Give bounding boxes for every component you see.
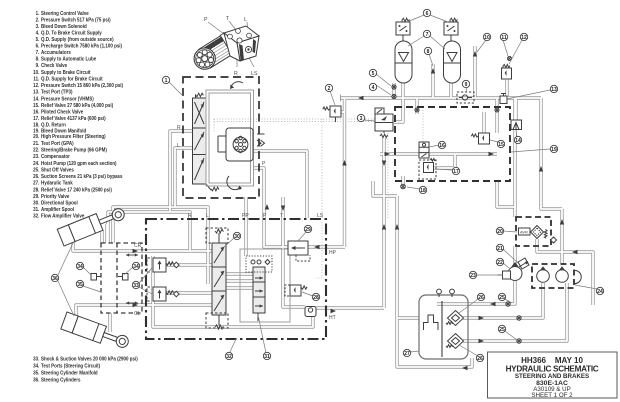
bleed down solenoid 3: [375, 108, 393, 138]
svg-text:Shock & Suction Valves 20 000: Shock & Suction Valves 20 000 kPa (2900 …: [41, 356, 138, 363]
suction screen 26 top: [446, 311, 464, 326]
svg-text:7: 7: [426, 32, 429, 38]
svg-text:34: 34: [77, 264, 83, 270]
svg-text:9.: 9.: [36, 63, 40, 70]
svg-text:L: L: [244, 17, 247, 23]
svg-text:Steering Cylinder Manifold: Steering Cylinder Manifold: [41, 370, 98, 377]
accumulator 7 right: [444, 35, 461, 83]
svg-text:22: 22: [497, 260, 503, 266]
svg-text:26: 26: [477, 356, 483, 362]
svg-text:T: T: [280, 213, 283, 219]
svg-text:21: 21: [497, 246, 503, 252]
svg-text:Hydarulic Tank: Hydarulic Tank: [41, 180, 73, 187]
svg-text:35.: 35.: [33, 370, 40, 377]
svg-text:L: L: [206, 213, 209, 219]
relief valve 2: [323, 106, 341, 122]
arrow tank loop left: [462, 366, 468, 370]
svg-text:LS: LS: [317, 213, 324, 219]
fitting screen line top: [517, 316, 521, 320]
amplifier spool 31 body: [246, 256, 272, 321]
svg-text:34.: 34.: [33, 363, 40, 370]
svg-text:SHEET 1 OF 2: SHEET 1 OF 2: [531, 392, 573, 399]
pump body barrel: [199, 33, 236, 68]
filter outlet fitting: [551, 237, 557, 243]
relief valve 28: [285, 285, 307, 296]
fitting pump suction: [506, 302, 510, 306]
test port 13: [500, 94, 507, 104]
shock valve 33 lower: [147, 287, 179, 301]
steering valve spool stack: [193, 93, 219, 191]
svg-text:High Pressure Filter (Steering: High Pressure Filter (Steering): [41, 134, 106, 141]
svg-text:Check Valve: Check Valve: [41, 63, 67, 70]
svg-text:Compensator: Compensator: [41, 154, 70, 161]
arrow suction left: [490, 302, 496, 306]
svg-text:P: P: [204, 17, 208, 23]
steering brake pump 22: [498, 262, 523, 281]
svg-text:Test Port (TP3): Test Port (TP3): [41, 89, 73, 96]
svg-text:CL: CL: [134, 311, 141, 317]
port fittings: QD supply 4 and 5: [392, 85, 396, 89]
steering valve subplate: [206, 90, 254, 186]
svg-text:16: 16: [439, 143, 445, 149]
svg-text:9: 9: [465, 82, 468, 88]
svg-text:3: 3: [360, 116, 363, 122]
bleed down manifold boundary box 19: [395, 107, 510, 181]
flow amplifier valve boundary box 32: [146, 219, 326, 339]
svg-text:R: R: [234, 71, 238, 77]
svg-text:24: 24: [597, 289, 603, 295]
svg-text:6: 6: [426, 11, 429, 17]
hose lines outer rails: [73, 46, 593, 367]
svg-text:CR: CR: [134, 243, 142, 249]
svg-text:14: 14: [515, 138, 521, 144]
svg-text:36.: 36.: [33, 377, 40, 384]
top steering cylinder 36: [57, 204, 127, 246]
svg-text:Test Ports (Steering Circuit): Test Ports (Steering Circuit): [41, 363, 100, 370]
svg-text:L: L: [177, 143, 180, 149]
svg-text:20: 20: [497, 229, 503, 235]
svg-text:Steering Cylinders: Steering Cylinders: [41, 377, 81, 384]
compensator 21: [518, 258, 529, 269]
LS pilot dotted into flow amp: [316, 222, 322, 278]
priority valve 29: [288, 241, 310, 261]
svg-text:15: 15: [498, 142, 504, 148]
arrow solenoid drain down: [382, 161, 386, 167]
relief valve 15: [471, 133, 489, 144]
arrow lube up: [431, 68, 435, 74]
callout leader lines: [58, 15, 597, 356]
port labels: [134, 125, 337, 321]
svg-text:R: R: [188, 213, 192, 219]
check valve 9: [457, 92, 474, 103]
double arrow in manifold upper: [126, 253, 138, 256]
svg-text:31: 31: [264, 354, 270, 360]
pressure switch 6 right: [444, 18, 458, 35]
pressure sensor 14: [511, 120, 522, 130]
arrow drain column up: [382, 224, 386, 230]
high pressure filter boundary box 20: [516, 217, 551, 246]
svg-text:PP: PP: [242, 213, 249, 219]
arrow bus left: [358, 96, 364, 100]
LS pilot dotted vertical at LS port: [321, 119, 323, 218]
bottom steering cylinder 36: [61, 312, 131, 352]
suction screen 26 bottom: [446, 334, 464, 349]
arrow filter riser up: [539, 166, 543, 172]
svg-text:17: 17: [453, 169, 459, 175]
svg-text:32: 32: [226, 354, 232, 360]
steering control valve boundary box 1: [183, 77, 259, 198]
double arrow in manifold lower: [126, 301, 138, 304]
supply bus end cap: [340, 95, 342, 102]
svg-text:HP: HP: [329, 250, 337, 256]
directional spool 30 body: [206, 228, 228, 329]
svg-text:P: P: [263, 213, 267, 219]
arrow bleed bus right b: [489, 152, 495, 156]
arrow T down: [281, 206, 285, 212]
rotation arrow bottom: [227, 176, 242, 190]
svg-text:R: R: [177, 125, 181, 131]
arrow HP riser up: [342, 160, 346, 166]
svg-text:10: 10: [484, 35, 490, 41]
svg-text:12: 12: [521, 35, 527, 41]
svg-text:HT: HT: [329, 315, 336, 321]
svg-text:27: 27: [404, 351, 410, 357]
svg-text:13.: 13.: [33, 89, 40, 96]
hoist pump 24 sections: [537, 266, 582, 283]
svg-text:35: 35: [77, 282, 83, 288]
test port 34 right: [118, 274, 128, 281]
hydraulic tank 27: [419, 289, 468, 359]
svg-text:25: 25: [499, 295, 505, 301]
svg-text:23: 23: [470, 273, 476, 279]
piloted check valve 16: [419, 142, 429, 158]
svg-text:32.: 32.: [33, 213, 40, 220]
arrow hoist feed up: [560, 219, 564, 225]
svg-text:11: 11: [501, 35, 507, 41]
motor port chevrons: [257, 134, 265, 146]
hoist pump boundary box 24: [532, 264, 574, 288]
rotation arrow top: [230, 82, 243, 89]
svg-text:AVR: AVR: [520, 230, 528, 235]
svg-text:18: 18: [420, 188, 426, 194]
svg-text:STEERING AND BRAKES: STEERING AND BRAKES: [515, 373, 589, 380]
accumulator 7 left: [395, 35, 412, 83]
svg-text:P: P: [262, 161, 266, 167]
svg-text:34: 34: [133, 264, 139, 270]
arrow CL trunk: [133, 303, 139, 307]
pump end cap: [194, 48, 215, 69]
valve housing block: [224, 26, 259, 43]
LS pilot dotted line horizontal: [214, 118, 388, 120]
pilot dotted line to piloted check 16: [422, 110, 424, 142]
svg-text:LS: LS: [251, 71, 258, 77]
QD fitting brake circuit 11: [508, 57, 512, 61]
svg-text:1: 1: [165, 78, 168, 84]
arrow hoist pressure left: [572, 250, 578, 254]
svg-text:4: 4: [372, 85, 375, 91]
subplate rect around amplifier spool: [240, 249, 290, 322]
svg-text:8: 8: [427, 49, 430, 55]
svg-text:20.: 20.: [33, 134, 40, 141]
svg-text:33: 33: [133, 283, 139, 289]
svg-text:27.: 27.: [33, 180, 40, 187]
svg-text:29: 29: [305, 227, 311, 233]
high pressure filter 20 element: [519, 226, 548, 239]
fitting screen line bottom: [517, 339, 521, 343]
arrow screen top right: [479, 316, 485, 320]
arrow tank drain up: [395, 224, 399, 230]
shock valve 33 upper: [147, 258, 179, 272]
svg-text:13: 13: [551, 87, 557, 93]
svg-text:23.: 23.: [33, 154, 40, 161]
svg-text:36: 36: [52, 276, 58, 282]
svg-text:Flow Amplifier Valve: Flow Amplifier Valve: [41, 213, 84, 220]
LS pilot dotted line right vertical: [387, 119, 389, 218]
check valve HT: [305, 307, 316, 317]
pilot dotted stub in steering valve: [213, 119, 215, 133]
svg-text:5: 5: [372, 71, 375, 77]
manifold 35 internal divider: [116, 243, 118, 313]
callout bubbles: [51, 9, 603, 362]
steering cylinder manifold box 35: [101, 243, 142, 313]
arrow brake supply up: [473, 51, 477, 57]
arrow P up: [265, 204, 269, 210]
arrow bleed bus right a: [385, 152, 391, 156]
hose lines white cores: [73, 46, 593, 367]
fitting on bleed manifold right: [495, 108, 499, 112]
legend list: [33, 11, 138, 384]
pressure switch 6 left: [396, 18, 410, 35]
svg-text:28: 28: [313, 295, 319, 301]
arrow HP left: [314, 245, 320, 249]
relief valve 17: [419, 159, 436, 180]
test port 34 left: [91, 274, 101, 281]
svg-text:19: 19: [551, 147, 557, 153]
svg-text:25: 25: [499, 327, 505, 333]
svg-text:26: 26: [478, 295, 484, 301]
relief valve 12: [502, 64, 512, 79]
fitting on bleed manifold left: [415, 108, 419, 112]
LS pilot dotted line horizontal second rail: [214, 121, 388, 123]
gerotor metering unit: [218, 128, 253, 161]
title block: [488, 352, 618, 399]
flow arrows: [133, 51, 578, 370]
svg-text:2: 2: [328, 86, 331, 92]
arrow screen bottom right: [479, 339, 485, 343]
steering control valve 3D pictorial: [194, 16, 259, 77]
QD return 18: [401, 184, 406, 189]
svg-text:33.: 33.: [33, 356, 40, 363]
arrow HT right: [331, 309, 337, 313]
svg-text:30: 30: [234, 234, 240, 240]
